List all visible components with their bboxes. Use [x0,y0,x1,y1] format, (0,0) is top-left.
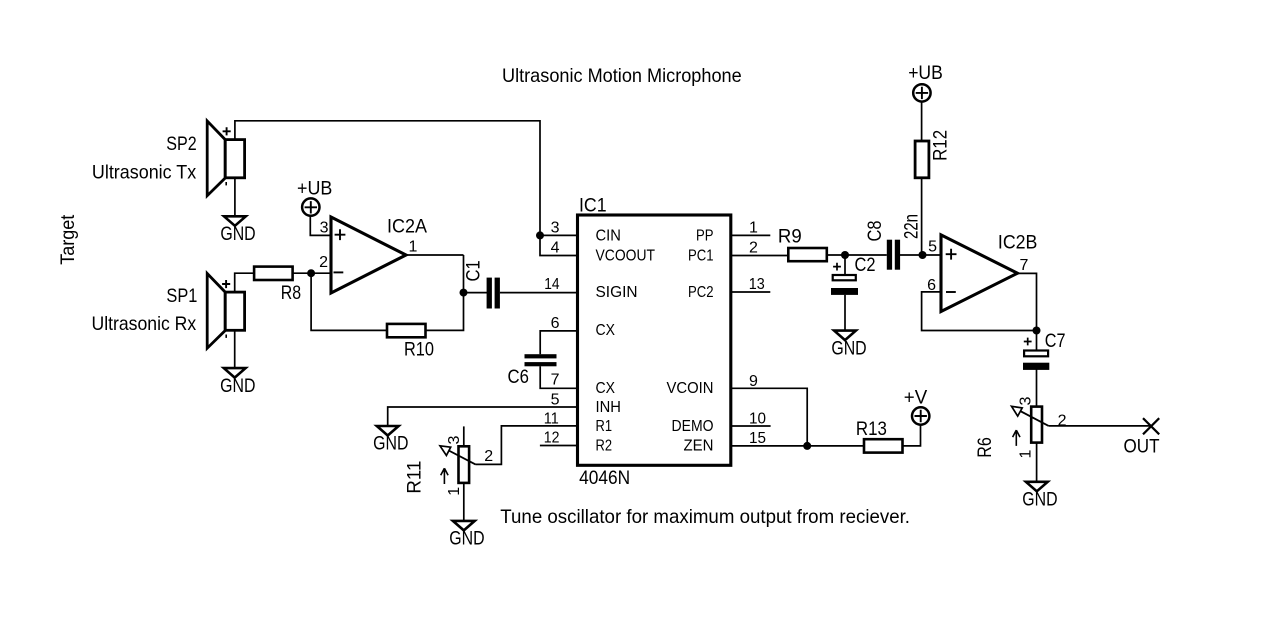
pin number 3 IC2A [320,220,329,237]
wire SP2 to ground [234,178,236,216]
wire SP1 to ground [234,330,236,368]
svg-text:IC2A: IC2A [387,216,427,238]
svg-text:3: 3 [320,220,329,237]
label Ultrasonic Rx [92,313,197,335]
wire +UB to R12 [921,102,923,140]
svg-text:C1: C1 [463,260,485,281]
resistor R10 [387,324,434,361]
svg-text:DEMO: DEMO [672,418,714,435]
wire R8 to op-amp pin 2 [293,272,331,274]
capacitor C7 (electrolytic) [1023,330,1066,370]
svg-text:4046N: 4046N [579,467,630,489]
svg-text:GND: GND [220,375,255,397]
node C2 tap [841,251,849,259]
svg-text:C7: C7 [1045,330,1066,352]
wire IC1 pin 4 [540,235,578,255]
svg-text:Ultrasonic Rx: Ultrasonic Rx [92,313,197,335]
svg-text:VCOIN: VCOIN [667,380,714,397]
wire R11 to ground [463,483,465,521]
supply +V [904,386,930,424]
svg-text:10: 10 [749,410,766,427]
svg-text:R2: R2 [596,437,613,454]
node R12/C8 [919,251,927,259]
supply +UB for IC2A [297,178,332,216]
svg-text:INH: INH [596,399,621,416]
IC1 left pin numbers [544,220,560,447]
wire R12 to node [921,179,923,256]
svg-text:Tune oscillator for maximum ou: Tune oscillator for maximum output from … [500,506,910,528]
wire C6 to IC1 pin 7 [540,366,578,388]
pin number 1 IC2A [409,239,418,256]
potentiometer R11 [404,426,494,495]
label Ultrasonic Tx [92,161,197,183]
capacitor C2 (electrolytic) [831,254,876,295]
wire IC1 pin 9 down to pin 15 net [731,388,807,446]
svg-text:2: 2 [484,448,493,465]
IC1 left pin names [596,227,656,454]
speaker SP2 [207,121,244,196]
wire IC1 pin 15 to R13 [731,445,864,447]
wire C7 to R6 [1036,370,1038,407]
note text [500,506,910,528]
wire R13 to +V [903,424,921,446]
svg-text:3: 3 [1018,397,1035,406]
svg-text:R12: R12 [929,130,951,161]
resistor R13 [856,418,903,453]
svg-text:3: 3 [446,436,463,445]
svg-text:PC2: PC2 [688,284,714,301]
svg-text:VCOOUT: VCOOUT [596,247,656,264]
node inverting input [307,269,315,277]
svg-text:+V: +V [904,386,927,408]
supply +UB right [908,62,943,102]
svg-text:CX: CX [596,380,616,397]
svg-text:12: 12 [544,430,560,447]
wire IC2B pin 6 feedback [922,292,1037,331]
wire SP2 top to IC1 pins 3/4 [235,121,540,236]
svg-text:IC2B: IC2B [998,231,1038,253]
svg-text:R6: R6 [974,437,996,458]
svg-text:2: 2 [1058,413,1067,430]
svg-text:5: 5 [928,238,937,255]
svg-text:R10: R10 [404,339,434,361]
wire R10 to output node [426,255,464,330]
svg-text:1: 1 [1018,450,1035,459]
wire C2 to ground [844,295,846,331]
speaker SP1 [207,274,244,349]
capacitor C1 [463,260,500,308]
wire IC1 pin 1 stub [731,234,771,236]
ground SP1 [220,368,255,397]
svg-text:22n: 22n [901,214,923,239]
wire R6 wiper to OUT [1048,425,1151,427]
wire op-amp output to C1 node [406,255,487,293]
svg-text:15: 15 [749,430,766,447]
svg-text:1: 1 [409,239,418,256]
svg-text:9: 9 [749,373,758,390]
svg-text:2: 2 [749,240,758,257]
svg-text:SP1: SP1 [166,285,197,307]
wire IC1 pin 12 stub [540,445,578,447]
svg-text:R9: R9 [778,225,802,247]
svg-text:C8: C8 [864,221,886,242]
wire IC1 pin 6 to C6 [540,331,578,354]
pin number 7 IC2B [1020,257,1029,274]
label SP1 [166,285,197,307]
svg-text:5: 5 [551,392,560,409]
potentiometer R6 [974,397,1067,459]
pin number 2 IC2A [319,254,328,271]
svg-text:OUT: OUT [1124,436,1160,458]
label Target (rotated) [57,214,79,265]
svg-text:R8: R8 [281,282,301,304]
svg-text:GND: GND [1022,489,1057,511]
wire C8 to IC2B pin 5 [900,254,941,256]
wire R6 to ground [1036,443,1038,482]
node junction pins 3/4 [536,231,544,239]
title text [502,65,742,87]
svg-text:R1: R1 [596,418,613,435]
wire feedback to R10 [311,273,387,330]
IC1 right pin names [667,227,714,454]
svg-text:Ultrasonic Tx: Ultrasonic Tx [92,161,197,183]
pin number 6 IC2B [927,277,936,294]
svg-text:ZEN: ZEN [684,437,714,454]
ground INH [373,426,408,455]
resistor R8 [254,267,301,304]
svg-text:2: 2 [319,254,328,271]
wire IC1 pin 2 to R9 [731,255,789,257]
svg-text:R11: R11 [404,461,426,494]
ground R11 [449,521,484,550]
svg-text:1: 1 [446,487,463,496]
svg-text:+UB: +UB [297,178,332,200]
label SP2 [166,133,196,155]
ground R6 [1022,482,1057,511]
ground SP2 [220,216,255,245]
wire IC2B output to C7 [1018,273,1037,349]
wire IC1 pin 10 stub [731,425,771,427]
svg-text:CIN: CIN [596,227,621,244]
svg-text:GND: GND [373,433,408,455]
svg-text:PC1: PC1 [688,247,714,264]
wire IC1 pin 3 [540,234,578,236]
resistor R12 [915,130,951,178]
pin number 5 IC2B [928,238,937,255]
wire IC1 pin 5 INH to ground [388,407,578,426]
wire IC1 pin 11 to R11 wiper [476,426,579,465]
svg-text:13: 13 [749,276,765,293]
wire IC1 pin 13 stub [731,291,771,293]
svg-text:C6: C6 [508,366,529,388]
IC IC1 4046N [578,195,731,489]
svg-text:GND: GND [449,528,484,550]
svg-text:Target: Target [57,214,79,265]
resistor R9 [778,225,827,261]
node output/C7 [1033,327,1041,335]
op-amp IC2B [941,231,1037,311]
svg-text:C2: C2 [855,254,876,276]
capacitor C6 [508,354,557,388]
svg-text:Ultrasonic Motion Microphone: Ultrasonic Motion Microphone [502,65,742,87]
node output/C1 [460,289,468,297]
wire R9 to C8 [827,254,887,256]
IC1 right pin numbers [749,220,766,447]
out pin marker X [1124,418,1160,457]
svg-text:7: 7 [1020,257,1029,274]
op-amp IC2A [331,216,427,294]
svg-text:14: 14 [544,276,559,293]
svg-text:6: 6 [551,315,560,332]
svg-text:SIGIN: SIGIN [596,284,638,301]
wire SP1 to R8 [235,273,254,291]
wire C1 to IC1 pin 14 [500,292,578,294]
ground C2 [831,331,866,360]
svg-text:4: 4 [551,240,560,257]
svg-text:+UB: +UB [908,62,943,84]
svg-text:PP: PP [696,227,714,244]
svg-text:1: 1 [749,220,758,237]
node pin9/pin15 [803,442,811,450]
svg-text:CX: CX [596,322,616,339]
svg-text:7: 7 [551,372,560,389]
svg-text:R13: R13 [856,418,887,440]
wire +UB to op-amp pin 3 [310,216,331,236]
svg-text:SP2: SP2 [166,133,196,155]
svg-text:11: 11 [544,410,559,427]
svg-text:GND: GND [831,337,866,359]
capacitor C8 22n [864,214,923,270]
svg-text:3: 3 [551,220,560,237]
svg-text:GND: GND [220,223,255,245]
svg-text:IC1: IC1 [579,195,607,217]
